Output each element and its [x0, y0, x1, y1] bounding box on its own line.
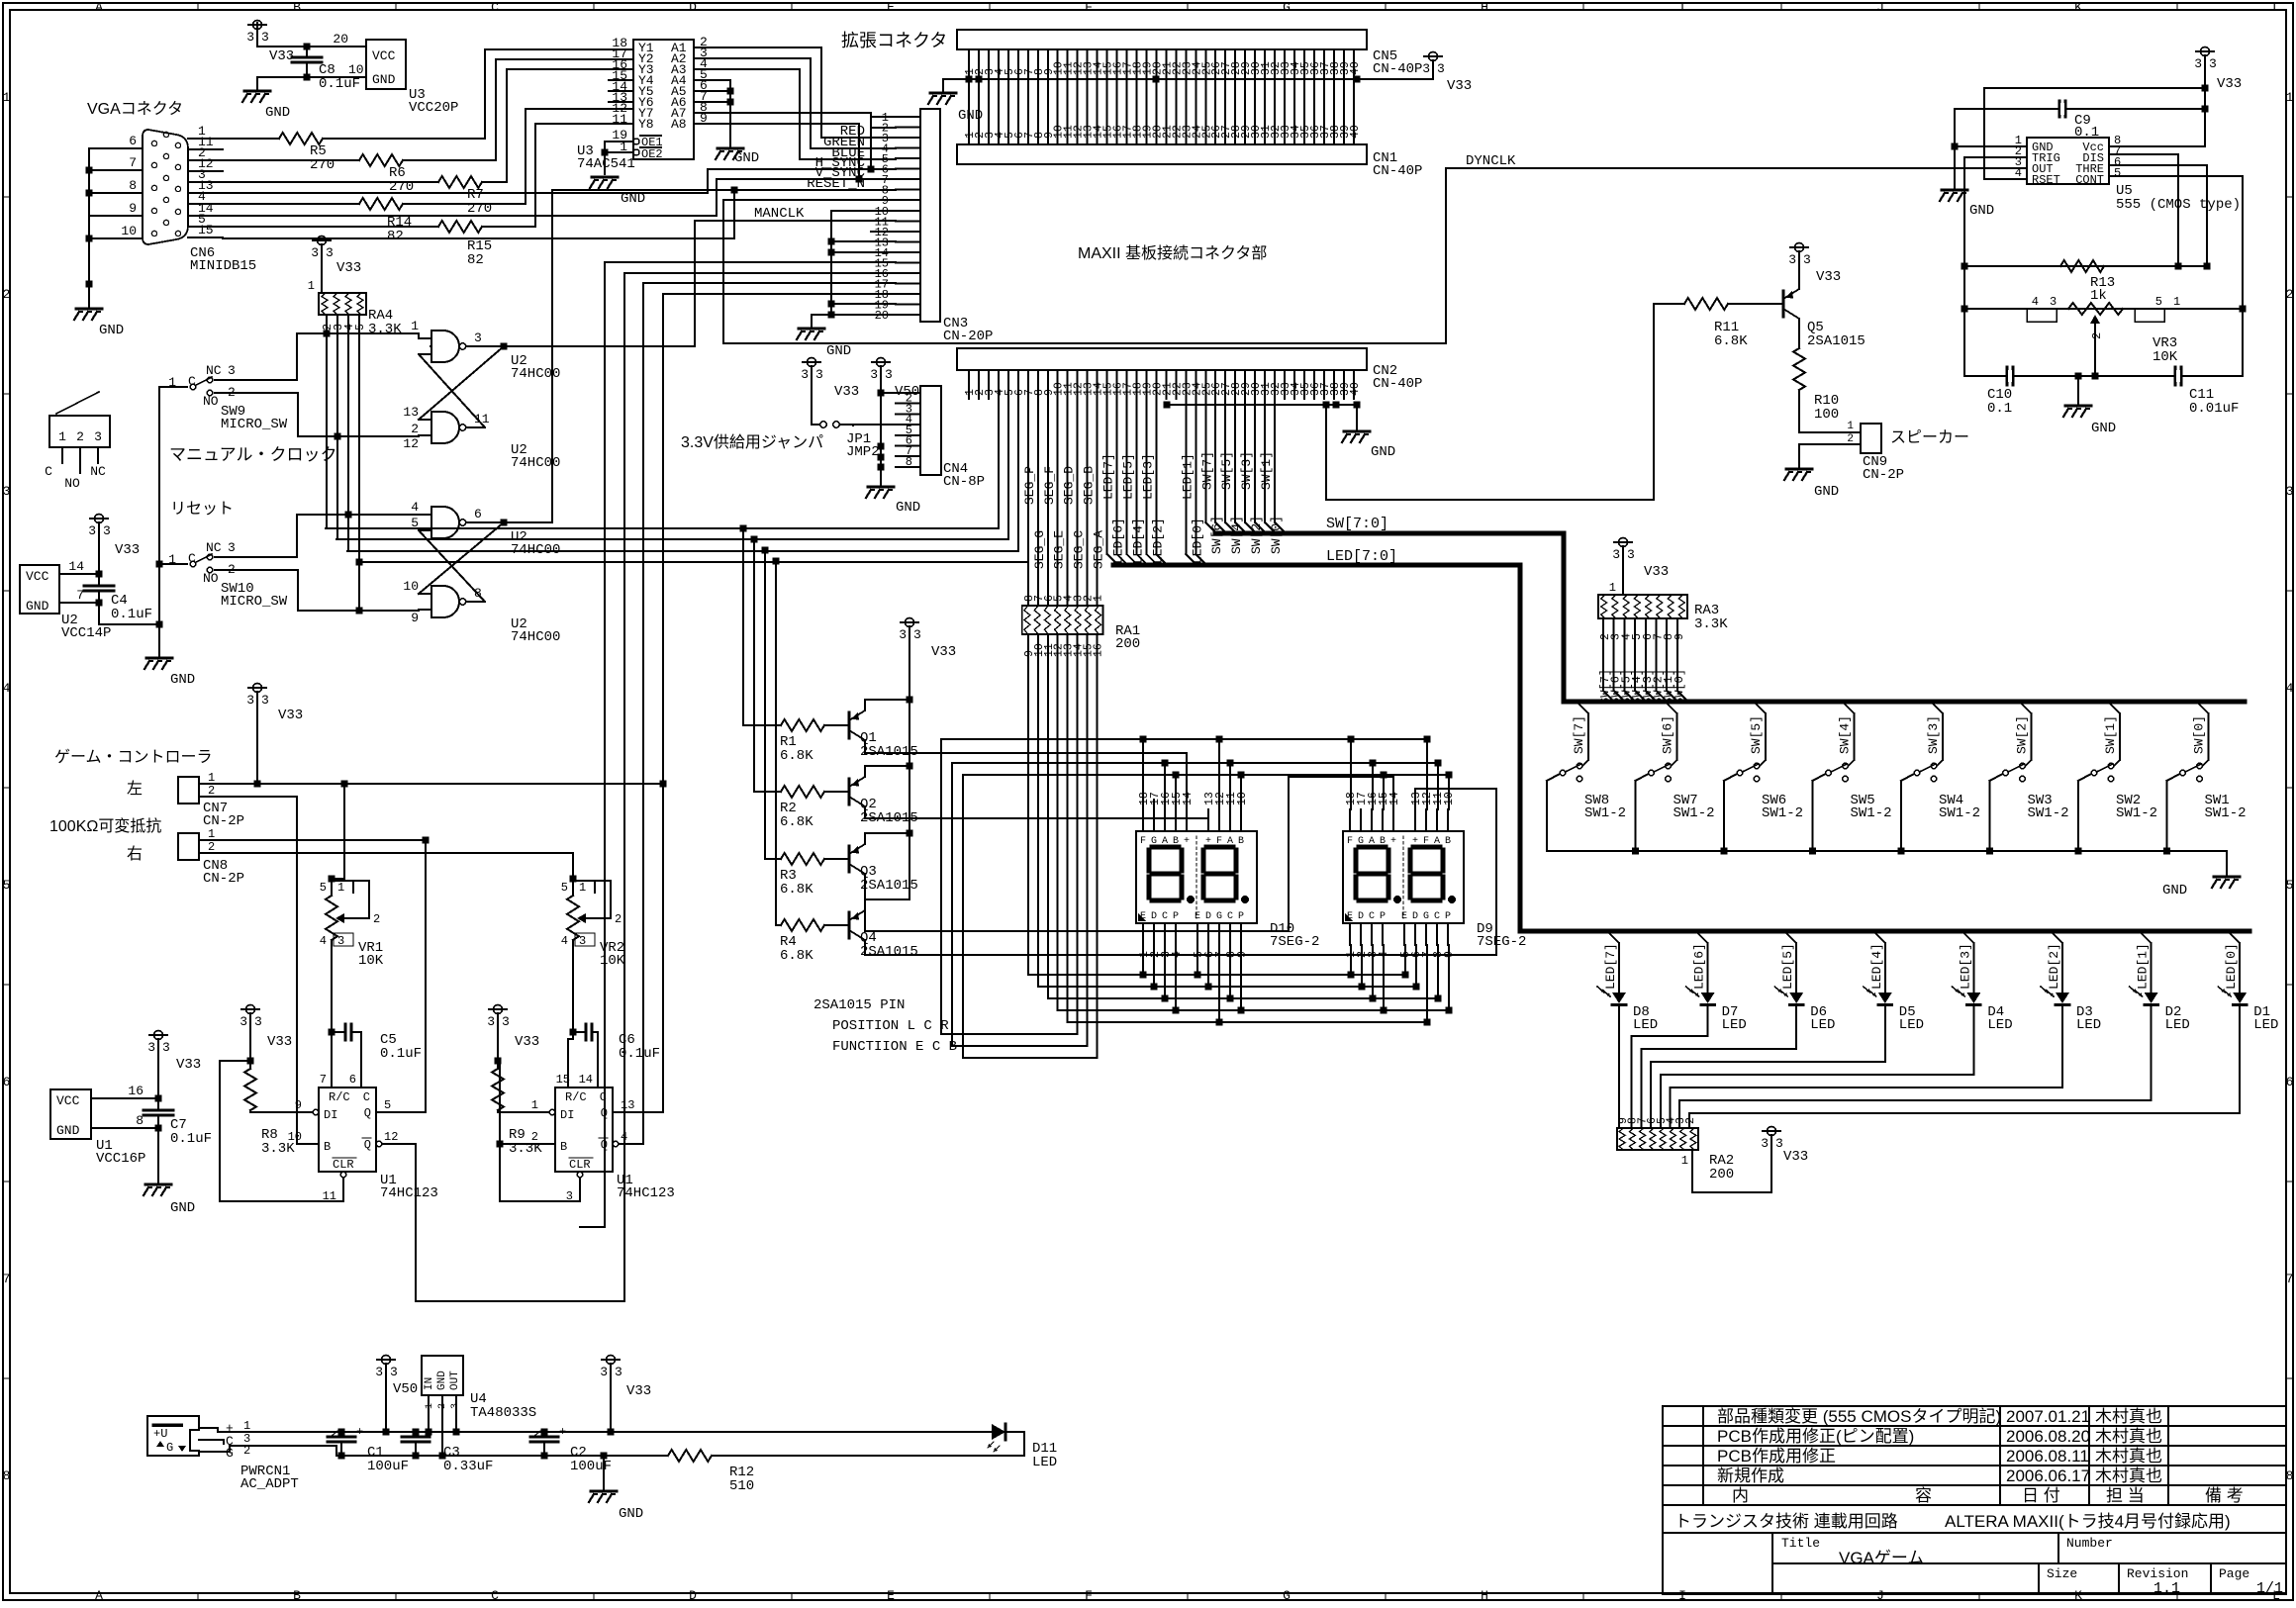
svg-text:3: 3 [2050, 295, 2057, 309]
svg-text:SW1-2: SW1-2 [2028, 805, 2069, 821]
svg-text:10: 10 [1236, 792, 1249, 805]
svg-text:D: D [1412, 911, 1418, 922]
svg-text:E: E [1401, 911, 1407, 922]
svg-text:20: 20 [333, 32, 348, 47]
svg-text:Q: Q [601, 1138, 608, 1152]
svg-text:2SA1015 PIN: 2SA1015 PIN [813, 997, 905, 1013]
svg-text:F: F [1216, 836, 1222, 847]
svg-text:40: 40 [1349, 382, 1362, 396]
svg-text:+: + [1205, 836, 1211, 847]
svg-text:G: G [1358, 836, 1364, 847]
svg-text:G: G [166, 1441, 173, 1455]
svg-text:3: 3 [1627, 547, 1635, 562]
svg-text:V33: V33 [269, 48, 294, 64]
svg-text:Q: Q [364, 1138, 371, 1152]
svg-text:7: 7 [129, 155, 137, 170]
svg-text:1: 1 [2286, 90, 2294, 105]
svg-text:G: G [1151, 836, 1157, 847]
svg-text:I: I [1678, 1588, 1686, 1603]
svg-text:SEG_B: SEG_B [1082, 466, 1097, 505]
svg-text:5: 5 [2155, 295, 2162, 309]
svg-text:E: E [887, 0, 895, 15]
svg-text:CN-8P: CN-8P [943, 474, 985, 490]
svg-text:15: 15 [556, 1073, 570, 1087]
svg-text:2006.08.11: 2006.08.11 [2006, 1447, 2089, 1466]
svg-text:200: 200 [1709, 1167, 1734, 1182]
svg-text:10K: 10K [2152, 349, 2178, 365]
svg-text:A: A [1434, 836, 1440, 847]
svg-text:右: 右 [127, 845, 143, 863]
svg-text:0.1uF: 0.1uF [380, 1046, 422, 1062]
svg-text:V33: V33 [2217, 76, 2242, 92]
svg-text:2006.06.17: 2006.06.17 [2006, 1466, 2090, 1485]
svg-text:L: L [2272, 0, 2280, 15]
svg-text:SW[7]: SW[7] [1199, 451, 1214, 490]
svg-text:A: A [1162, 836, 1168, 847]
svg-text:C: C [491, 1588, 499, 1603]
svg-text:P: P [1380, 911, 1386, 922]
svg-text:3: 3 [913, 627, 921, 642]
svg-text:RSET: RSET [2032, 173, 2060, 187]
svg-text:LED[6]: LED[6] [1692, 943, 1707, 990]
svg-text:3: 3 [326, 245, 334, 260]
svg-text:GND: GND [99, 323, 124, 338]
svg-text:RESET_N: RESET_N [807, 176, 865, 192]
svg-text:B: B [1238, 836, 1244, 847]
svg-text:NC: NC [206, 540, 222, 555]
svg-text:F: F [1347, 836, 1353, 847]
svg-text:B: B [324, 1140, 331, 1154]
svg-text:2: 2 [208, 840, 215, 854]
svg-text:NC: NC [90, 464, 106, 479]
svg-text:B: B [1445, 836, 1451, 847]
svg-text:10: 10 [288, 1130, 302, 1144]
svg-text:VCC20P: VCC20P [409, 100, 458, 116]
svg-text:NO: NO [203, 394, 219, 409]
svg-text:5: 5 [561, 881, 568, 895]
svg-text:270: 270 [467, 201, 492, 217]
svg-text:1: 1 [579, 881, 586, 895]
svg-text:1: 1 [208, 827, 215, 841]
svg-text:PCB作成用修正(ピン配置): PCB作成用修正(ピン配置) [1717, 1427, 1914, 1446]
svg-text:POSITION L C R: POSITION L C R [832, 1018, 949, 1034]
svg-text:Y8: Y8 [638, 117, 654, 132]
svg-text:GND: GND [170, 1200, 195, 1216]
svg-text:2006.08.20: 2006.08.20 [2006, 1427, 2090, 1446]
svg-text:V33: V33 [267, 1034, 292, 1050]
svg-text:3: 3 [1437, 61, 1445, 76]
svg-text:V33: V33 [115, 542, 140, 558]
svg-text:V33: V33 [931, 644, 956, 660]
svg-text:1: 1 [531, 1098, 538, 1112]
svg-text:40: 40 [1349, 61, 1362, 75]
svg-text:CN-40P: CN-40P [1373, 163, 1422, 179]
svg-text:Size: Size [2047, 1566, 2077, 1581]
svg-text:0.1: 0.1 [2074, 125, 2099, 141]
svg-text:E: E [1347, 911, 1353, 922]
svg-text:GND: GND [896, 500, 920, 516]
svg-text:C: C [188, 374, 196, 389]
svg-text:4: 4 [621, 1130, 627, 1144]
svg-text:SW1-2: SW1-2 [2116, 805, 2157, 821]
svg-text:CONT: CONT [2075, 173, 2104, 187]
svg-text:GND: GND [958, 108, 983, 124]
svg-text:9: 9 [1236, 951, 1249, 958]
svg-text:74HC00: 74HC00 [511, 542, 560, 558]
svg-text:10K: 10K [600, 953, 625, 969]
svg-text:A: A [95, 0, 103, 15]
svg-text:V33: V33 [1447, 78, 1472, 94]
svg-text:6.8K: 6.8K [780, 948, 813, 964]
svg-text:B: B [1173, 836, 1179, 847]
svg-text:2SA1015: 2SA1015 [860, 944, 918, 960]
svg-text:LED: LED [1899, 1017, 1924, 1033]
svg-text:CN-2P: CN-2P [203, 871, 244, 887]
svg-text:Number: Number [2066, 1536, 2113, 1551]
svg-text:OUT: OUT [449, 1371, 461, 1390]
svg-text:木村真也: 木村真也 [2095, 1407, 2162, 1426]
svg-text:SW[2]: SW[2] [2015, 715, 2030, 754]
svg-text:GND: GND [621, 191, 645, 207]
svg-text:1: 1 [3, 90, 11, 105]
svg-text:J: J [1876, 1588, 1884, 1603]
svg-text:MICRO_SW: MICRO_SW [221, 594, 288, 610]
svg-text:LED[7]: LED[7] [1101, 453, 1116, 500]
svg-text:82: 82 [467, 252, 484, 268]
svg-text:V33: V33 [1783, 1149, 1808, 1165]
svg-text:1: 1 [1609, 581, 1616, 595]
svg-text:5: 5 [384, 1098, 391, 1112]
svg-text:2: 2 [2286, 287, 2294, 302]
svg-text:3: 3 [103, 523, 111, 538]
svg-text:スピーカー: スピーカー [1890, 429, 1969, 446]
svg-text:3: 3 [239, 1014, 247, 1029]
svg-text:CN-2P: CN-2P [1863, 467, 1904, 483]
svg-text:1: 1 [337, 881, 344, 895]
svg-text:C: C [491, 0, 499, 15]
svg-text:G: G [1283, 1588, 1291, 1603]
svg-text:3: 3 [228, 363, 236, 378]
svg-text:40: 40 [1349, 125, 1362, 139]
svg-text:0.1: 0.1 [1987, 401, 2012, 417]
svg-text:4: 4 [2286, 681, 2294, 696]
svg-text:A: A [1227, 836, 1233, 847]
svg-text:6: 6 [2286, 1075, 2294, 1089]
svg-text:3: 3 [246, 30, 254, 45]
svg-text:B: B [293, 1588, 301, 1603]
svg-text:H: H [1481, 1588, 1488, 1603]
svg-text:V33: V33 [1816, 269, 1841, 285]
svg-text:B: B [560, 1140, 567, 1154]
svg-text:VCC: VCC [26, 569, 49, 584]
svg-text:V50: V50 [393, 1381, 418, 1397]
svg-text:SW[1]: SW[1] [1259, 451, 1274, 490]
svg-text:3: 3 [474, 331, 482, 345]
svg-text:7: 7 [3, 1272, 11, 1286]
svg-text:6.8K: 6.8K [780, 748, 813, 764]
svg-text:IN: IN [424, 1377, 435, 1390]
svg-text:6.8K: 6.8K [1714, 333, 1748, 349]
svg-text:VGAゲーム: VGAゲーム [1839, 1549, 1924, 1567]
svg-text:1.1: 1.1 [2153, 1580, 2180, 1597]
svg-text:4: 4 [320, 934, 327, 948]
svg-text:VCC14P: VCC14P [61, 625, 111, 641]
svg-text:GND: GND [265, 105, 290, 121]
svg-text:F: F [1085, 1588, 1093, 1603]
svg-text:マニュアル・クロック: マニュアル・クロック [169, 445, 337, 464]
svg-text:82: 82 [387, 229, 404, 244]
svg-text:B: B [293, 0, 301, 15]
svg-text:GND: GND [826, 343, 851, 359]
svg-text:1: 1 [1847, 421, 1854, 432]
svg-text:LED[7:0]: LED[7:0] [1326, 548, 1397, 565]
svg-text:LED[1]: LED[1] [2136, 943, 2151, 990]
svg-text:1: 1 [58, 429, 66, 444]
svg-text:3: 3 [1422, 61, 1430, 76]
svg-text:R/C: R/C [329, 1090, 350, 1104]
svg-text:13: 13 [621, 1098, 634, 1112]
svg-text:3: 3 [2286, 484, 2294, 499]
svg-text:LED: LED [1032, 1455, 1057, 1470]
svg-text:GND: GND [170, 672, 195, 688]
svg-text:6: 6 [3, 1075, 11, 1089]
svg-text:3: 3 [600, 1365, 608, 1379]
svg-text:JMP2: JMP2 [846, 444, 880, 460]
svg-text:D: D [1151, 911, 1157, 922]
svg-text:LED: LED [2165, 1017, 2190, 1033]
svg-text:2: 2 [76, 429, 84, 444]
svg-text:LED[2]: LED[2] [1150, 518, 1165, 564]
svg-text:SW1-2: SW1-2 [2205, 805, 2247, 821]
svg-text:OE2: OE2 [641, 147, 663, 161]
svg-text:木村真也: 木村真也 [2095, 1447, 2162, 1466]
svg-text:Page: Page [2219, 1566, 2249, 1581]
svg-text:3: 3 [311, 245, 319, 260]
svg-text:SEG_D: SEG_D [1062, 466, 1077, 505]
svg-text:3: 3 [390, 1365, 398, 1379]
svg-text:MICRO_SW: MICRO_SW [221, 417, 288, 432]
svg-text:LED[4]: LED[4] [1131, 518, 1146, 564]
svg-text:3: 3 [94, 429, 102, 444]
svg-text:SW[3]: SW[3] [1239, 451, 1254, 490]
svg-text:9: 9 [129, 201, 137, 216]
svg-text:PCB作成用修正: PCB作成用修正 [1717, 1447, 1836, 1466]
svg-text:C: C [363, 1090, 370, 1104]
svg-text:G: G [1423, 911, 1429, 922]
svg-text:SW[0]: SW[0] [2192, 715, 2207, 754]
svg-text:トランジスタ技術 連載用回路: トランジスタ技術 連載用回路 [1674, 1512, 1898, 1531]
svg-text:9: 9 [411, 611, 419, 625]
svg-text:C: C [1162, 911, 1168, 922]
svg-text:3: 3 [261, 30, 269, 45]
svg-text:100KΩ可変抵抗: 100KΩ可変抵抗 [49, 817, 161, 835]
svg-text:1: 1 [208, 771, 215, 785]
svg-text:+: + [1184, 836, 1190, 847]
svg-text:5: 5 [354, 324, 367, 331]
svg-text:LED[4]: LED[4] [1869, 943, 1884, 990]
svg-text:G: G [1283, 0, 1291, 15]
svg-text:3: 3 [2209, 56, 2217, 71]
svg-text:3: 3 [801, 367, 809, 382]
svg-text:1: 1 [2173, 295, 2180, 309]
svg-text:MANCLK: MANCLK [754, 206, 805, 222]
svg-text:SW1-2: SW1-2 [1674, 805, 1715, 821]
svg-text:SEG_C: SEG_C [1072, 530, 1087, 569]
svg-text:V33: V33 [515, 1034, 539, 1050]
svg-text:12: 12 [403, 436, 419, 451]
svg-text:1: 1 [243, 1419, 250, 1433]
svg-text:FUNCTIION E C B: FUNCTIION E C B [832, 1039, 957, 1055]
svg-text:0.1uF: 0.1uF [319, 76, 360, 92]
svg-text:2: 2 [531, 1130, 538, 1144]
svg-text:SEG_E: SEG_E [1052, 530, 1067, 569]
svg-text:9: 9 [295, 1098, 302, 1112]
svg-text:D: D [689, 0, 697, 15]
svg-text:4: 4 [2015, 166, 2022, 180]
svg-text:D: D [1205, 911, 1211, 922]
svg-text:LED: LED [2076, 1017, 2101, 1033]
svg-text:木村真也: 木村真也 [2095, 1427, 2162, 1446]
svg-text:3.3V供給用ジャンパ: 3.3V供給用ジャンパ [681, 433, 823, 451]
svg-text:3: 3 [1775, 1136, 1783, 1151]
svg-text:V33: V33 [278, 708, 303, 723]
svg-text:13: 13 [403, 405, 419, 420]
svg-text:3: 3 [246, 693, 254, 708]
svg-text:LED[1]: LED[1] [1180, 453, 1195, 500]
svg-text:SW[5]: SW[5] [1749, 715, 1764, 754]
svg-text:NC: NC [206, 363, 222, 378]
svg-text:2: 2 [3, 287, 11, 302]
svg-text:2: 2 [373, 912, 380, 926]
svg-text:8: 8 [136, 1113, 143, 1128]
svg-text:SW[7]: SW[7] [1572, 715, 1586, 754]
svg-text:SW1-2: SW1-2 [1851, 805, 1892, 821]
svg-text:0.01uF: 0.01uF [2189, 401, 2239, 417]
svg-text:DI: DI [560, 1108, 574, 1122]
svg-text:E: E [1140, 911, 1146, 922]
svg-text:4: 4 [1171, 951, 1184, 958]
svg-text:+: + [1390, 836, 1396, 847]
svg-text:11: 11 [612, 112, 627, 127]
svg-text:LED[3]: LED[3] [1141, 453, 1156, 500]
svg-text:ゲーム・コントローラ: ゲーム・コントローラ [54, 748, 213, 766]
svg-text:VGAコネクタ: VGAコネクタ [87, 100, 183, 118]
svg-text:DI: DI [324, 1108, 337, 1122]
svg-text:LED: LED [1987, 1017, 2012, 1033]
svg-text:GND: GND [26, 599, 49, 614]
svg-text:LED[6]: LED[6] [1111, 518, 1126, 564]
svg-text:4: 4 [411, 500, 419, 515]
svg-text:SW1-2: SW1-2 [1762, 805, 1803, 821]
svg-text:1: 1 [425, 1403, 435, 1409]
svg-text:CN-20P: CN-20P [943, 329, 993, 344]
svg-text:NO: NO [203, 571, 219, 586]
svg-text:C: C [600, 1090, 607, 1104]
svg-text:容: 容 [1915, 1486, 1932, 1505]
svg-text:1: 1 [1093, 595, 1105, 602]
svg-text:16: 16 [128, 1084, 143, 1098]
svg-text:8: 8 [3, 1468, 11, 1483]
svg-text:DYNCLK: DYNCLK [1466, 153, 1516, 169]
svg-text:6.8K: 6.8K [780, 882, 813, 898]
svg-text:+: + [356, 1425, 363, 1439]
svg-text:D: D [1358, 911, 1364, 922]
svg-text:6: 6 [474, 507, 482, 521]
svg-text:P: P [1445, 911, 1451, 922]
svg-text:8: 8 [129, 178, 137, 193]
svg-text:3: 3 [885, 367, 893, 382]
svg-text:P: P [1238, 911, 1244, 922]
svg-text:K: K [2074, 0, 2082, 15]
svg-text:MINIDB15: MINIDB15 [190, 258, 256, 274]
svg-text:GND: GND [1371, 444, 1395, 460]
svg-text:3.3K: 3.3K [1694, 616, 1728, 632]
svg-text:3: 3 [502, 1014, 510, 1029]
svg-text:9: 9 [1674, 633, 1686, 640]
svg-text:新規作成: 新規作成 [1717, 1466, 1784, 1485]
svg-text:LED: LED [2253, 1017, 2278, 1033]
svg-text:74HC123: 74HC123 [380, 1185, 438, 1201]
svg-text:1: 1 [1681, 1154, 1688, 1168]
svg-text:270: 270 [310, 157, 335, 173]
svg-text:12: 12 [384, 1130, 398, 1144]
svg-text:VCC: VCC [56, 1093, 80, 1108]
svg-text:7: 7 [2286, 1272, 2294, 1286]
svg-text:F: F [1085, 0, 1093, 15]
svg-text:1: 1 [411, 319, 419, 333]
svg-text:8: 8 [906, 455, 912, 469]
svg-text:15: 15 [198, 223, 214, 237]
svg-text:左: 左 [127, 780, 143, 798]
svg-text:V33: V33 [176, 1057, 201, 1073]
svg-text:H: H [1481, 0, 1488, 15]
svg-text:6: 6 [129, 134, 137, 148]
svg-text:GND: GND [1814, 484, 1839, 500]
svg-text:LED[5]: LED[5] [1121, 453, 1136, 500]
svg-text:+: + [1412, 836, 1418, 847]
svg-text:GND: GND [436, 1371, 448, 1390]
svg-text:5: 5 [2114, 166, 2121, 180]
svg-text:SW[3]: SW[3] [1926, 715, 1941, 754]
svg-text:3.3K: 3.3K [368, 322, 402, 337]
svg-text:7SEG-2: 7SEG-2 [1270, 934, 1319, 950]
svg-text:10K: 10K [358, 953, 384, 969]
svg-text:LED[0]: LED[0] [2224, 943, 2239, 990]
svg-text:4: 4 [561, 934, 568, 948]
svg-text:SW[7:0]: SW[7:0] [1326, 516, 1388, 532]
svg-text:0.33uF: 0.33uF [443, 1459, 493, 1474]
svg-text:日 付: 日 付 [2022, 1486, 2060, 1505]
svg-text:SW[4]: SW[4] [1838, 715, 1853, 754]
svg-text:200: 200 [1115, 636, 1140, 652]
svg-text:16: 16 [1093, 643, 1105, 657]
svg-text:5: 5 [2286, 878, 2294, 893]
svg-text:+: + [559, 1425, 566, 1439]
svg-text:SW1-2: SW1-2 [1584, 805, 1626, 821]
svg-text:LED[2]: LED[2] [2047, 943, 2061, 990]
svg-text:3: 3 [815, 367, 823, 382]
svg-text:1: 1 [308, 279, 315, 293]
svg-text:リセット: リセット [170, 501, 234, 518]
svg-text:拡張コネクタ: 拡張コネクタ [841, 31, 947, 50]
svg-text:Title: Title [1781, 1536, 1820, 1551]
svg-text:A: A [95, 1588, 103, 1603]
svg-text:6: 6 [349, 1073, 356, 1087]
svg-text:SEG_P: SEG_P [1022, 466, 1037, 505]
svg-text:Q: Q [601, 1106, 608, 1120]
svg-text:E: E [887, 1588, 895, 1603]
svg-text:3: 3 [615, 1365, 622, 1379]
